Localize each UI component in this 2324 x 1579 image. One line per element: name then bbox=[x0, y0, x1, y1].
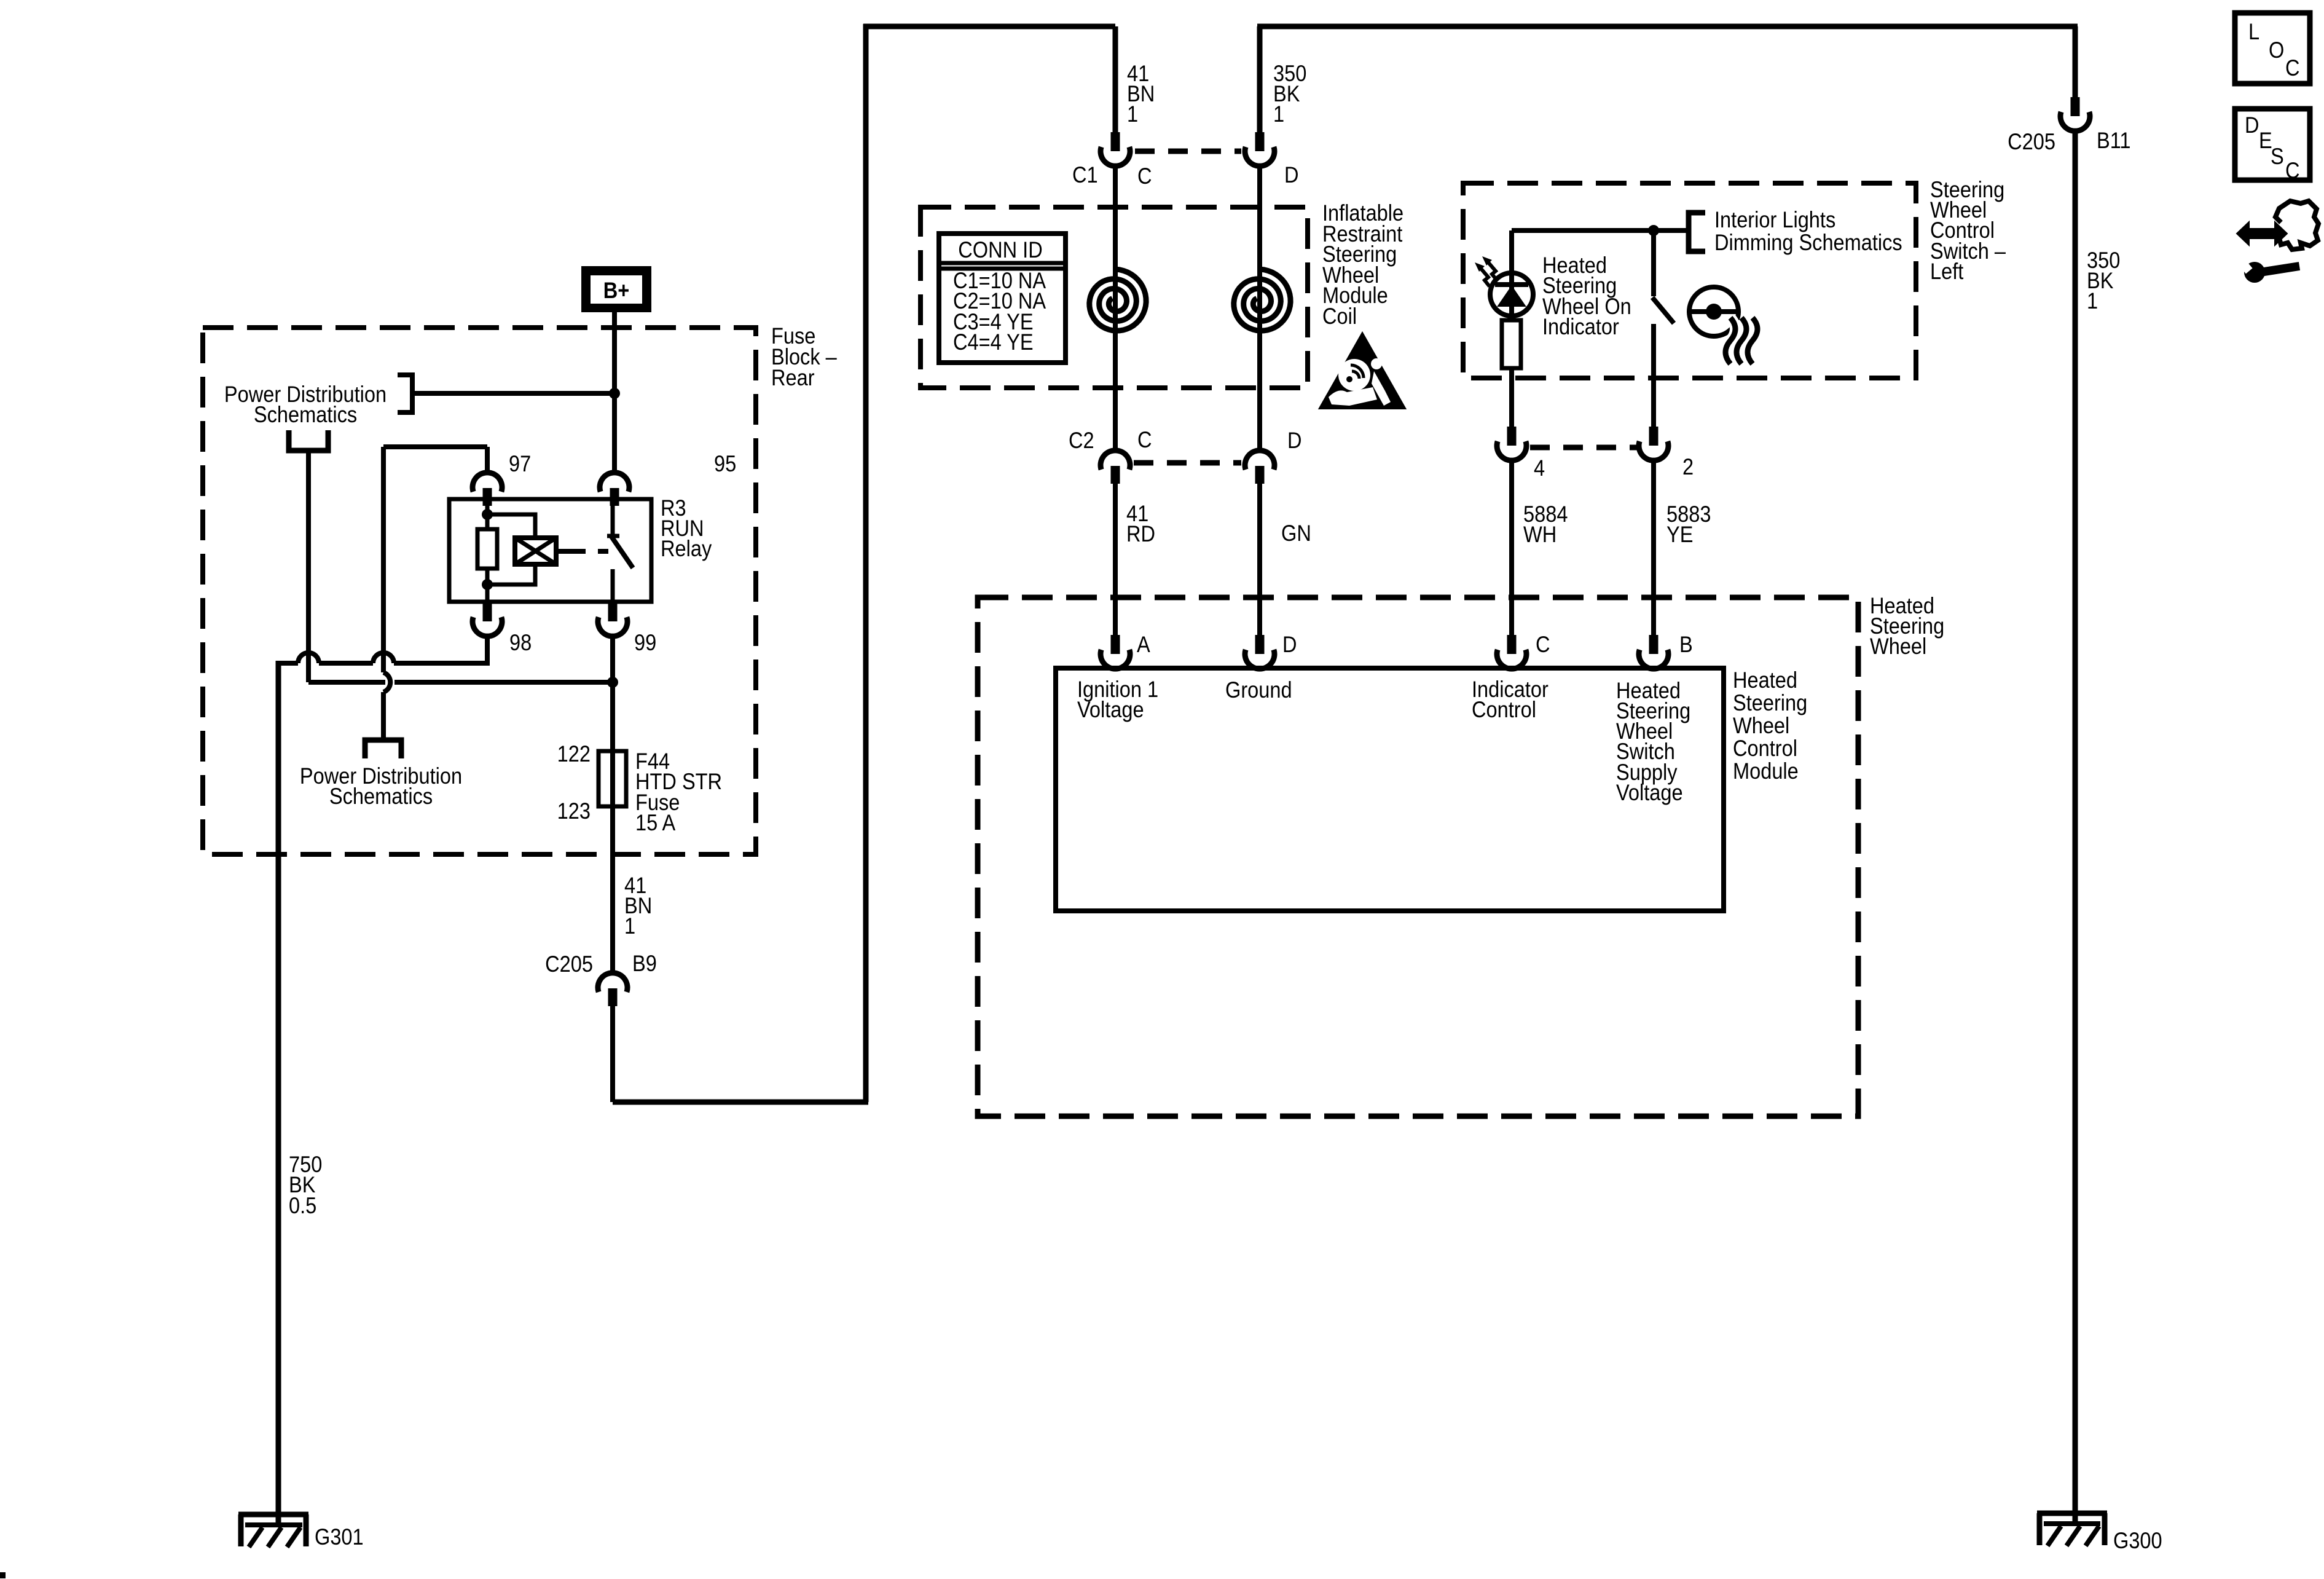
label 97 bbox=[509, 451, 531, 476]
wire horizontal from crossover corner to junction at 99 bbox=[308, 680, 613, 685]
label C1 bbox=[1072, 162, 1098, 187]
label 5884 bbox=[1523, 502, 1568, 527]
label Interior Lights bbox=[1714, 207, 1835, 232]
relay actuation dashed link bbox=[556, 549, 608, 554]
label Ground bbox=[1225, 677, 1292, 703]
label module name Heated bbox=[1733, 667, 1797, 693]
wire D through coil to D (lower) bbox=[1257, 167, 1262, 451]
relay coil box with X bbox=[515, 538, 556, 564]
connector pin 2 bbox=[1639, 427, 1668, 460]
svg-text:B+: B+ bbox=[603, 278, 630, 303]
label Wheel On (indicator) bbox=[1542, 294, 1631, 319]
svg-text:Interior Lights: Interior Lights bbox=[1714, 207, 1835, 232]
heated steering wheel dashed boundary bbox=[978, 597, 1858, 1116]
module pin B connector bbox=[1639, 635, 1668, 669]
svg-text:Schematics: Schematics bbox=[329, 784, 433, 809]
wire 41 BN drop to connector C1 bbox=[1113, 26, 1118, 132]
label C1=10 NA bbox=[953, 268, 1046, 293]
svg-text:L: L bbox=[2248, 19, 2259, 44]
wire from corner down toward lower fork bbox=[381, 447, 386, 738]
crossover hop of vertical wire over horizontal wire bbox=[383, 672, 390, 692]
label Module (coil) bbox=[1322, 283, 1388, 308]
hop over fork wire bbox=[298, 653, 319, 663]
label switch supply Wheel bbox=[1616, 719, 1673, 744]
label wire 350 right line2 bbox=[2087, 268, 2113, 293]
wire from relay pin 98 to ground riser with hops bbox=[278, 661, 487, 666]
fuse block - rear dashed boundary bbox=[203, 328, 756, 854]
hop over pin-97 wire bbox=[373, 653, 394, 663]
svg-text:C2: C2 bbox=[1069, 428, 1094, 453]
label 123 bbox=[557, 798, 591, 824]
label Power Distribution (upper) line 1 bbox=[224, 382, 387, 407]
svg-text:2: 2 bbox=[1682, 454, 1694, 479]
wire 41 BN loop: horizontal at bottom from B9 to riser bbox=[613, 1100, 868, 1105]
svg-text:Wheel: Wheel bbox=[1733, 713, 1789, 738]
svg-text:Module: Module bbox=[1733, 758, 1799, 784]
label wire 350 BK top line3 bbox=[1273, 101, 1284, 127]
relay coil branch bottom wire bbox=[487, 564, 535, 585]
svg-text:GN: GN bbox=[1281, 521, 1311, 546]
svg-text:Coil: Coil bbox=[1322, 304, 1357, 329]
label Relay bbox=[661, 536, 712, 561]
label wire 750 line2 bbox=[289, 1172, 315, 1197]
svg-text:Indicator: Indicator bbox=[1542, 314, 1619, 339]
relay switch lower contact bbox=[611, 569, 615, 605]
label wire 41 BN top line3 bbox=[1127, 101, 1138, 127]
label Indicator (indicator) bbox=[1542, 314, 1619, 339]
LED diode triangle bbox=[1498, 286, 1525, 306]
label C2=10 NA bbox=[953, 288, 1046, 313]
label pin D bbox=[1282, 632, 1297, 657]
fuse F44 body bbox=[599, 751, 626, 806]
wire drop to relay pin 97 bbox=[485, 447, 490, 473]
wire D to module pin D bbox=[1257, 483, 1262, 635]
module pin C connector bbox=[1497, 635, 1526, 669]
svg-text:98: 98 bbox=[509, 630, 532, 655]
svg-text:Schematics: Schematics bbox=[254, 402, 357, 427]
svg-text:Wheel: Wheel bbox=[1870, 634, 1926, 659]
relay coil feed wire bbox=[485, 505, 490, 529]
connector D (upper) bbox=[1245, 132, 1274, 166]
svg-text:YE: YE bbox=[1666, 522, 1693, 547]
svg-text:15 A: 15 A bbox=[635, 810, 676, 835]
wire down to LED bbox=[1509, 230, 1514, 273]
wire indicator branch horizontal bbox=[1512, 228, 1688, 233]
icon component location arrows / part / wrench bbox=[2237, 201, 2318, 283]
CONN ID header rule bbox=[939, 263, 1066, 269]
svg-text:Relay: Relay bbox=[661, 536, 712, 561]
label Steering (coil) bbox=[1322, 242, 1397, 267]
label pin B bbox=[1679, 632, 1693, 657]
relay switch upper contact bbox=[611, 499, 615, 534]
svg-text:D: D bbox=[1284, 162, 1299, 187]
power feed B+ symbol bbox=[581, 266, 651, 312]
svg-text:Heated: Heated bbox=[1733, 667, 1797, 693]
LOC box bbox=[2235, 13, 2310, 84]
svg-text:CONN ID: CONN ID bbox=[958, 237, 1042, 262]
label Fuse Block line2 bbox=[771, 344, 837, 369]
label switch supply Steering bbox=[1616, 698, 1690, 723]
wire pin 99 to junction bbox=[610, 637, 615, 682]
label wire 41 RD line2 bbox=[1126, 521, 1155, 546]
ground symbol G301 bbox=[238, 1514, 308, 1547]
wire 350 BK right riser to C205 B11 bbox=[2073, 26, 2078, 97]
label wire 750 line1 bbox=[289, 1152, 322, 1177]
label switch name Steering bbox=[1930, 177, 2004, 202]
label D (lower) bbox=[1287, 428, 1302, 453]
svg-text:0.5: 0.5 bbox=[289, 1193, 316, 1218]
label wire 41 line1 bbox=[624, 873, 646, 898]
label G301 bbox=[315, 1524, 364, 1549]
label WH bbox=[1523, 522, 1557, 547]
LED emission arrows bbox=[1475, 256, 1497, 286]
steering wheel icon bbox=[1689, 287, 1739, 336]
off-page bracket to Interior Lights Dimming bbox=[1689, 213, 1705, 251]
label Wheel (coil) bbox=[1322, 262, 1379, 288]
page edge mark bbox=[0, 1572, 6, 1578]
connector pin 4 bbox=[1497, 427, 1526, 460]
svg-text:C: C bbox=[1137, 163, 1152, 189]
svg-text:Steering: Steering bbox=[1733, 690, 1807, 715]
svg-text:99: 99 bbox=[634, 630, 656, 655]
module pin A connector bbox=[1101, 635, 1130, 669]
label switch supply Switch bbox=[1616, 739, 1675, 764]
label 5883 bbox=[1666, 502, 1711, 527]
svg-text:D: D bbox=[1282, 632, 1297, 657]
node junction at switch bbox=[1648, 225, 1659, 236]
node junction at fuse F44 feed bbox=[607, 677, 618, 688]
svg-text:C: C bbox=[2285, 158, 2300, 183]
wire ground riser 750 BK to G301 bbox=[276, 661, 281, 1524]
svg-text:C: C bbox=[2285, 55, 2300, 81]
label wire 350 right line1 bbox=[2087, 248, 2120, 273]
label Inflatable bbox=[1322, 200, 1403, 226]
switch lower contact wire bbox=[1651, 324, 1656, 427]
dashed connector tie C1-D bbox=[1135, 149, 1241, 154]
svg-text:RD: RD bbox=[1126, 521, 1155, 546]
label HTD STR bbox=[635, 769, 722, 794]
label Dimming Schematics bbox=[1714, 230, 1902, 255]
DESC letter D bbox=[2245, 112, 2259, 138]
svg-text:1: 1 bbox=[1273, 101, 1284, 127]
wire junction to fuse F44 and to C205 B9 bbox=[610, 682, 615, 973]
label Heated (indicator) bbox=[1542, 253, 1607, 278]
indicator resistor bbox=[1502, 320, 1521, 368]
svg-text:C1: C1 bbox=[1072, 162, 1098, 187]
svg-text:95: 95 bbox=[714, 451, 736, 476]
svg-text:Control: Control bbox=[1733, 736, 1797, 761]
relay coil branch top wire bbox=[487, 514, 535, 538]
svg-text:Voltage: Voltage bbox=[1616, 780, 1683, 805]
svg-text:G300: G300 bbox=[2113, 1528, 2162, 1553]
label heated steering wheel Steering bbox=[1870, 613, 1944, 639]
relay R3 RUN Relay outline bbox=[449, 499, 651, 602]
relay switch contact tick bbox=[607, 534, 619, 538]
label Steering (indicator) bbox=[1542, 273, 1617, 298]
label Coil bbox=[1322, 304, 1357, 329]
svg-text:1: 1 bbox=[624, 913, 635, 939]
svg-text:C205: C205 bbox=[545, 951, 593, 977]
CONN ID table box bbox=[939, 234, 1066, 363]
svg-text:C: C bbox=[1137, 427, 1152, 452]
steering wheel control switch dashed boundary bbox=[1463, 183, 1916, 378]
label pin A bbox=[1137, 632, 1150, 657]
svg-text:B9: B9 bbox=[632, 951, 657, 976]
DESC letter S bbox=[2271, 144, 2284, 169]
switch blade bbox=[1652, 297, 1674, 323]
label C4=4 YE bbox=[953, 329, 1034, 355]
svg-text:C4=4 YE: C4=4 YE bbox=[953, 329, 1034, 355]
label wire 350 BK top line1 bbox=[1273, 61, 1306, 86]
label B11 bbox=[2097, 128, 2131, 153]
module pin D connector bbox=[1245, 635, 1274, 669]
svg-text:Dimming Schematics: Dimming Schematics bbox=[1714, 230, 1902, 255]
label 99 bbox=[634, 630, 656, 655]
LED cathode bar bbox=[1495, 282, 1528, 287]
label wire 41 BN top line1 bbox=[1127, 61, 1149, 86]
label wire 350 right line3 bbox=[2087, 288, 2098, 313]
label C3=4 YE bbox=[953, 309, 1034, 334]
relay pin 99 connector bbox=[598, 602, 627, 636]
relay pin 97 connector bbox=[473, 473, 502, 506]
label heated steering wheel Wheel bbox=[1870, 634, 1926, 659]
wire below B9 bbox=[610, 1006, 615, 1102]
label 95 bbox=[714, 451, 736, 476]
coil spiral right bbox=[1234, 269, 1290, 331]
connector C205 B9 bbox=[598, 973, 627, 1006]
svg-text:4: 4 bbox=[1534, 455, 1545, 481]
DESC letter C bbox=[2285, 158, 2300, 183]
wire resistor to pin 4 bbox=[1509, 368, 1514, 427]
svg-text:Left: Left bbox=[1930, 259, 1964, 284]
svg-text:Rear: Rear bbox=[771, 365, 815, 390]
label wire 350 BK top line2 bbox=[1273, 81, 1300, 106]
label D (upper) bbox=[1284, 162, 1299, 187]
node relay coil top junction bbox=[482, 509, 493, 520]
label switch supply Heated bbox=[1616, 678, 1681, 703]
svg-text:1: 1 bbox=[1127, 101, 1138, 127]
wire 350 BK top horizontal bbox=[1257, 24, 2078, 30]
label Ignition 1 bbox=[1077, 677, 1158, 702]
label R3 bbox=[661, 495, 686, 521]
wire horizontal to relay pin 97 bbox=[383, 444, 487, 449]
label 2 bbox=[1682, 454, 1694, 479]
svg-text:D: D bbox=[1287, 428, 1302, 453]
wire C1 through coil to C2 bbox=[1113, 167, 1118, 451]
label Power Distribution (lower) line 1 bbox=[300, 763, 462, 789]
ground symbol G300 bbox=[2037, 1513, 2107, 1546]
label G300 bbox=[2113, 1528, 2162, 1553]
node relay coil bottom junction bbox=[482, 579, 493, 590]
connector C205 B11 bbox=[2060, 97, 2090, 131]
heat waves on wheel icon bbox=[1725, 318, 1757, 364]
off-page bracket to Power Distribution Schematics (upper) bbox=[398, 375, 412, 412]
relay switch blade bbox=[611, 537, 633, 568]
wire C2 to module pin A bbox=[1113, 483, 1118, 635]
label C2 bbox=[1069, 428, 1094, 453]
svg-text:A: A bbox=[1137, 632, 1150, 657]
label 15 A bbox=[635, 810, 676, 835]
label heated steering wheel Heated bbox=[1870, 593, 1934, 618]
svg-text:Ground: Ground bbox=[1225, 677, 1292, 703]
svg-text:WH: WH bbox=[1523, 522, 1557, 547]
svg-text:123: 123 bbox=[557, 798, 591, 824]
label CONN ID bbox=[958, 237, 1042, 262]
label wire 41 line2 bbox=[624, 893, 652, 918]
label Fuse Block line3 bbox=[771, 365, 815, 390]
label Power Distribution (upper) line 2 bbox=[254, 402, 357, 427]
dashed connector tie 4-2 bbox=[1530, 445, 1637, 451]
label module name Control bbox=[1733, 736, 1797, 761]
label C205 (B9) bbox=[545, 951, 593, 977]
wire pin 4 to module pin C bbox=[1509, 460, 1514, 635]
label switch name Switch – bbox=[1930, 238, 2006, 264]
heated steering wheel control module box bbox=[1056, 668, 1724, 911]
label switch name Control bbox=[1930, 218, 1995, 243]
label switch name Left bbox=[1930, 259, 1964, 284]
relay coil resistor bbox=[477, 529, 497, 569]
svg-text:Control: Control bbox=[1472, 697, 1536, 722]
label module name Module bbox=[1733, 758, 1799, 784]
label 98 bbox=[509, 630, 532, 655]
icon airbag warning triangle bbox=[1321, 335, 1403, 408]
node junction on B+ wire bbox=[609, 388, 620, 399]
svg-text:C: C bbox=[1536, 632, 1550, 657]
off-page fork above lower Power Distribution label bbox=[365, 740, 401, 758]
label Voltage (ign) bbox=[1077, 697, 1144, 722]
off-page fork under upper Power Distribution label bbox=[289, 430, 328, 451]
coil spiral left bbox=[1089, 269, 1146, 331]
label Fuse bbox=[635, 790, 680, 815]
svg-text:C205: C205 bbox=[2008, 129, 2055, 154]
wire 350 BK drop to connector D bbox=[1257, 26, 1263, 132]
label B9 bbox=[632, 951, 657, 976]
label RUN bbox=[661, 516, 704, 541]
label wire 41 BN top line2 bbox=[1127, 81, 1155, 106]
label wire GN bbox=[1281, 521, 1311, 546]
label pin C bbox=[1536, 632, 1550, 657]
DESC letter E bbox=[2259, 128, 2272, 153]
dashed connector tie C2-D bbox=[1134, 460, 1241, 466]
wire 41 BN loop: top horizontal to C1 bbox=[863, 24, 1115, 30]
label Fuse Block line1 bbox=[771, 323, 815, 348]
LED indicator circle bbox=[1490, 273, 1533, 316]
label YE bbox=[1666, 522, 1693, 547]
label switch name Wheel bbox=[1930, 197, 1987, 222]
label 4 bbox=[1534, 455, 1545, 481]
LOC letter O bbox=[2269, 37, 2284, 63]
DESC box bbox=[2235, 109, 2310, 180]
svg-text:B: B bbox=[1679, 632, 1693, 657]
wire pin 98 to corner bbox=[485, 637, 490, 666]
label Control (ind) bbox=[1472, 697, 1536, 722]
connector C1 bbox=[1101, 132, 1130, 166]
switch upper contact wire bbox=[1651, 230, 1656, 296]
relay coil bottom wire bbox=[485, 569, 490, 605]
label C (lower) bbox=[1137, 427, 1152, 452]
label F44 bbox=[635, 749, 670, 774]
svg-text:1: 1 bbox=[2087, 288, 2098, 313]
label C (upper) bbox=[1137, 163, 1152, 189]
label Indicator bbox=[1472, 677, 1549, 702]
svg-text:B11: B11 bbox=[2097, 128, 2131, 153]
label Power Distribution (lower) line 2 bbox=[329, 784, 433, 809]
connector C2 bbox=[1101, 451, 1130, 484]
wire 350 BK to G300 bbox=[2073, 131, 2078, 1524]
label C205 (B11) bbox=[2008, 129, 2055, 154]
label module name Wheel bbox=[1733, 713, 1789, 738]
svg-text:O: O bbox=[2269, 37, 2284, 63]
LOC letter C bbox=[2285, 55, 2300, 81]
label Restraint bbox=[1322, 221, 1403, 246]
svg-text:S: S bbox=[2271, 144, 2284, 169]
wire from fork down to crossover corner bbox=[306, 453, 311, 682]
label switch supply Supply bbox=[1616, 760, 1678, 785]
relay pin 95 connector bbox=[600, 473, 629, 506]
connector D (lower) bbox=[1245, 451, 1274, 484]
svg-text:97: 97 bbox=[509, 451, 531, 476]
label 122 bbox=[557, 741, 591, 766]
relay pin 98 connector bbox=[473, 602, 502, 636]
wire LED to resistor bbox=[1509, 273, 1514, 320]
svg-text:Voltage: Voltage bbox=[1077, 697, 1144, 722]
inflatable restraint coil module dashed boundary bbox=[921, 207, 1308, 388]
label wire 41 line3 bbox=[624, 913, 635, 939]
wire from B+ to relay pin 95 bbox=[612, 312, 617, 473]
wire 41 BN loop: riser x=1409 bbox=[863, 24, 869, 1102]
label wire 750 line3 bbox=[289, 1193, 316, 1218]
label switch supply Voltage bbox=[1616, 780, 1683, 805]
label module name Steering bbox=[1733, 690, 1807, 715]
wire pin 2 to module pin B bbox=[1651, 460, 1656, 635]
svg-text:122: 122 bbox=[557, 741, 591, 766]
label wire 41 RD line1 bbox=[1126, 501, 1148, 526]
svg-text:G301: G301 bbox=[315, 1524, 364, 1549]
LOC letter L bbox=[2248, 19, 2259, 44]
svg-text:D: D bbox=[2245, 112, 2259, 138]
wire from power distribution bracket to junction bbox=[412, 391, 614, 396]
